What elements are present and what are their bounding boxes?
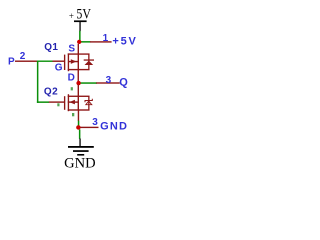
node junction top +5V [77, 40, 81, 44]
Q1 body diode triangle [85, 61, 94, 65]
svg-text:S: S [68, 43, 75, 54]
Q1 body diode vertical [88, 54, 89, 70]
Q2 body diode zener bar [85, 99, 92, 102]
Q1 middle line [68, 61, 78, 62]
ground symbol bar 3 [77, 154, 84, 156]
wire to Q2 gate [37, 101, 49, 103]
svg-text:Q2: Q2 [44, 87, 58, 98]
Q1 body diode cathode bar [84, 59, 94, 60]
Q1 channel bar [68, 53, 69, 71]
Q2 top stub [68, 96, 90, 97]
wire node to ground [79, 129, 81, 138]
wire Q2 source to node [78, 121, 80, 127]
Q2 body diode vertical [88, 96, 89, 110]
Q1 gate bar [64, 55, 65, 70]
pin 3 ground connector [81, 127, 99, 128]
svg-text:Q: Q [119, 76, 128, 88]
wire input drop vertical [37, 61, 39, 103]
svg-text:+5V: +5V [112, 35, 136, 47]
svg-text:P: P [8, 57, 15, 68]
pin 2 input connector [15, 61, 37, 62]
node junction output [76, 81, 80, 85]
Q2 middle line [68, 101, 79, 102]
ground symbol lead [79, 139, 80, 147]
Q2 body diode triangle [86, 101, 92, 105]
wire input P [37, 61, 53, 62]
Q2 drain pin [78, 85, 79, 97]
svg-text:G: G [55, 63, 63, 74]
wire V+ trunk top [79, 31, 81, 41]
Q1 gate pin [52, 61, 64, 62]
svg-text:+: + [69, 11, 74, 21]
ground symbol bar 1 [68, 146, 94, 148]
Q1 drain pin [78, 70, 79, 82]
Q2 bottom stub [68, 109, 90, 110]
wire +5V to pin1 [79, 41, 90, 43]
svg-text:GND: GND [100, 120, 127, 132]
svg-text:2: 2 [20, 51, 26, 62]
svg-text:3: 3 [92, 117, 98, 128]
Q2 pin number 2 tiny [71, 87, 73, 90]
Q2 source pin [78, 110, 79, 121]
svg-text:3: 3 [106, 75, 112, 86]
Q2 pin number 3 tiny [72, 113, 74, 116]
Q1 bottom stub [68, 69, 90, 70]
svg-text:Q1: Q1 [44, 42, 58, 53]
svg-text:5V: 5V [76, 6, 91, 22]
ground symbol bar 2 [73, 150, 89, 152]
Q2 channel bar [68, 94, 69, 111]
svg-text:1: 1 [103, 33, 109, 44]
Q2 pin number 1 tiny [57, 103, 59, 106]
svg-text:GND: GND [64, 155, 96, 171]
pin 1 +5V connector [90, 41, 112, 42]
Q1 arrow (points right, PMOS) [71, 59, 77, 64]
Q1 right vertical [78, 53, 79, 70]
Q2 right vertical [78, 96, 79, 110]
svg-text:D: D [68, 72, 75, 83]
Q2 gate bar [64, 96, 65, 110]
Q1 top stub [68, 53, 90, 54]
wire output node [79, 82, 97, 84]
power port +5V stem [79, 22, 80, 31]
power port +5V bar [74, 20, 87, 22]
Q2 gate pin [49, 101, 65, 102]
Q1 source pin [78, 44, 79, 54]
node junction ground [76, 125, 81, 130]
Q2 arrow (points left, NMOS) [69, 100, 75, 105]
pin 3 output connector [96, 82, 120, 83]
